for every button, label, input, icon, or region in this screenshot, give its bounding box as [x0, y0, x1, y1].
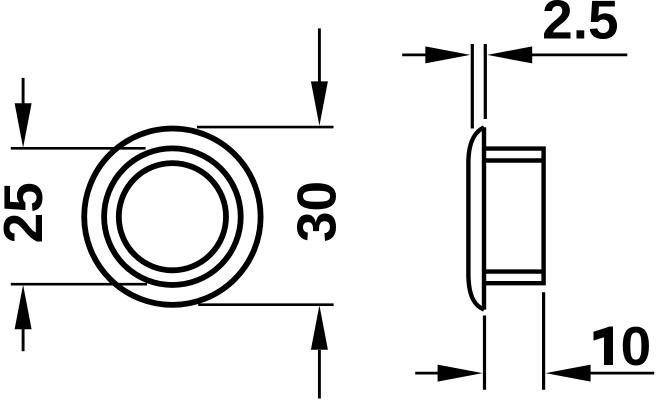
svg-text:0: 0 [621, 315, 652, 377]
svg-text:30: 30 [285, 181, 347, 242]
svg-text:2.5: 2.5 [542, 0, 618, 51]
svg-text:25: 25 [0, 182, 54, 243]
